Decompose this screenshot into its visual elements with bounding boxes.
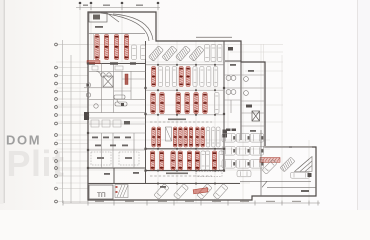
red car tl0 [95, 35, 99, 60]
svg-text:Plit: Plit [7, 143, 65, 184]
wash box room top-left [89, 13, 153, 41]
interior partitions left block [84, 64, 146, 169]
car hall b1 s4 [179, 67, 183, 87]
left grid bubbles [55, 43, 58, 203]
diag car um0 [149, 46, 164, 61]
car hall b3 s2 [173, 127, 177, 147]
label chip small room top [228, 47, 233, 51]
structural column dots [87, 62, 225, 184]
dark chunk right wall band3 [223, 130, 228, 138]
car hall b2 s6 [215, 93, 220, 114]
car hall b4 s0 [150, 151, 154, 170]
car hall b3 s7 [201, 127, 205, 147]
room label chips mid-left [92, 137, 131, 147]
red car tl1 [104, 35, 108, 60]
hall divider walls [88, 41, 241, 184]
top dimension tiny texts [83, 5, 143, 6]
aisle label chips [166, 119, 188, 175]
h-car grid r0 c1 [236, 134, 249, 143]
h-car grid r2 c2 [250, 160, 263, 169]
diag car um1 [162, 46, 177, 61]
tiny text above middle wall [196, 37, 232, 38]
car hall b4 s1 [159, 151, 163, 170]
white car tl5 [141, 45, 146, 60]
car hall b4 s3 [178, 151, 182, 170]
car hall b4 s4 [187, 151, 191, 170]
car hall b3 s10 [216, 127, 220, 147]
car hall b4 s2 [171, 151, 175, 170]
dark wall chunk left [84, 112, 89, 120]
extra partitions upper-left rooms [96, 71, 146, 104]
main hall beams [146, 65, 224, 171]
toilet fixtures right strip [226, 76, 248, 96]
misc tiny label chips [104, 64, 256, 188]
divider room right strip [230, 100, 232, 113]
h-car grid r1 c2 [250, 147, 263, 156]
red car tl2 [114, 35, 118, 60]
photo right margin strip [358, 0, 370, 210]
dashed label box aisle bottom [196, 172, 222, 177]
fixtures left rooms [86, 73, 127, 108]
chip in bottom-right room [301, 190, 309, 192]
car hall b3 s4 [184, 127, 188, 147]
car hall b1 s3 [172, 67, 176, 87]
ramp room lines [240, 130, 316, 196]
car below ramp horizontal [291, 172, 310, 178]
car hall b1 s8 [207, 67, 211, 87]
dark beam chunks y62 [89, 62, 136, 64]
car hall b2 s0 [151, 93, 156, 114]
photo left edge line [3, 0, 5, 203]
car hall b2 s5 [203, 93, 208, 114]
car hall b4 s7 [205, 151, 209, 170]
h-car grid r1 c0 [222, 147, 235, 156]
left rooms row y118-133 boxes [88, 120, 146, 127]
car hall b4 s8 [212, 151, 216, 170]
diag car um2 [176, 46, 191, 61]
bottom dimension line [63, 201, 320, 206]
shaft with X right strip [252, 111, 260, 121]
faint structural grid verticals [80, 8, 309, 203]
hatched pillar band 3 [166, 127, 172, 141]
red horizontal bar left room [87, 61, 100, 64]
dark blob fixture [121, 103, 124, 106]
car hall b1 s1 [158, 67, 162, 87]
top grid bubbles [79, 2, 160, 5]
red hatched bar ramp [260, 158, 280, 163]
diag car um3 [189, 46, 204, 61]
photo left margin strip [0, 0, 4, 204]
car hall b3 s8 [206, 127, 210, 147]
photo right edge line [357, 0, 359, 210]
car hall b4 s5 [195, 151, 199, 170]
red chips near staircase [116, 186, 118, 193]
car hall b4 s9 [219, 151, 223, 170]
shaft with X left block [103, 76, 113, 87]
diag car bot0 [154, 184, 169, 200]
wash box label chip [95, 26, 103, 28]
car hall b3 s5 [189, 127, 193, 147]
car hall b1 s9 [214, 67, 218, 87]
left dimension vertical lines [63, 40, 72, 203]
car hall b2 s2 [176, 93, 181, 114]
h-car grid r2 c0 [222, 160, 235, 169]
h-car grid r1 c1 [236, 147, 249, 156]
diag car bot1 [173, 184, 188, 200]
car hall b3 s3 [179, 127, 183, 147]
svg-text:ТП: ТП [97, 192, 106, 199]
car hall b2 s1 [160, 93, 165, 114]
ramp slope triangle [295, 157, 313, 172]
red hatched bar bottom middle [193, 188, 208, 194]
aisle dashed centerlines [150, 122, 212, 176]
dark red vertical bar left room [125, 74, 128, 85]
red car tl3 [124, 35, 128, 60]
white vertical car um5 [218, 45, 223, 62]
wash box dark cabinet [93, 15, 100, 20]
top dimension line [76, 5, 160, 10]
h-car grid r0 c0 [222, 134, 235, 143]
thin divider left of first red car [92, 34, 94, 61]
dashed furniture rooms lower-left [91, 152, 139, 165]
diag car bot3 [213, 184, 228, 200]
car hall b2 s4 [194, 93, 199, 114]
bottom dimension number chips [95, 201, 301, 202]
white vertical car um3 [205, 45, 210, 62]
h-car grid r2 c1 [236, 160, 249, 169]
car hall b1 s0 [152, 67, 156, 87]
h-car below grid [237, 171, 251, 177]
car hall b1 s7 [200, 67, 204, 87]
car hall b1 s5 [186, 67, 190, 87]
dark box right of car [308, 173, 312, 177]
cabinets upper-left rooms [92, 66, 123, 70]
car hall b3 s6 [196, 127, 200, 147]
building outer wall [88, 12, 316, 200]
faint grid horizontals [56, 45, 283, 184]
TP room [89, 185, 113, 199]
car hall b1 s6 [193, 67, 197, 87]
beam above top-left cars [88, 33, 145, 35]
car hall b3 s9 [212, 127, 216, 147]
white vertical car um4 [211, 45, 216, 62]
car hall b2 s3 [185, 93, 190, 114]
right strip upper label chips [226, 105, 252, 132]
right strip partitions [224, 75, 265, 126]
car hall b3 s0 [152, 127, 156, 147]
car hall b1 s2 [165, 67, 169, 87]
hatched diag car ramp [280, 157, 295, 172]
tiny text row above ramp [263, 146, 312, 147]
diag car bot2 [197, 184, 212, 200]
staircase [115, 185, 128, 198]
white car tl4 [132, 45, 137, 60]
car hall b4 s6 [201, 151, 205, 170]
car hall b3 s1 [157, 127, 161, 147]
white diag car ramp left [262, 159, 277, 174]
h-car grid r0 c2 [250, 134, 263, 143]
